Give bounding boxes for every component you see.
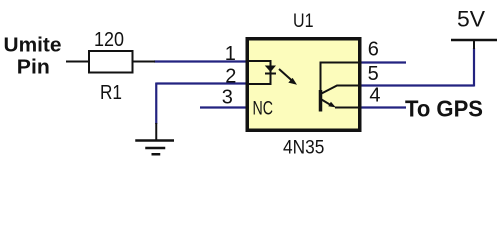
- svg-text:Pin: Pin: [17, 56, 50, 78]
- svg-text:5: 5: [368, 63, 379, 85]
- svg-text:Umite: Umite: [4, 34, 62, 56]
- svg-text:R1: R1: [100, 82, 122, 104]
- svg-text:120: 120: [94, 29, 124, 51]
- svg-text:U1: U1: [293, 11, 314, 32]
- svg-text:2: 2: [225, 65, 236, 87]
- svg-text:To GPS: To GPS: [405, 95, 483, 121]
- svg-text:6: 6: [368, 39, 379, 61]
- svg-text:3: 3: [222, 86, 233, 108]
- svg-text:NC: NC: [253, 98, 274, 119]
- svg-text:5V: 5V: [457, 6, 485, 31]
- svg-text:4: 4: [369, 84, 380, 106]
- svg-text:1: 1: [225, 43, 236, 65]
- svg-text:4N35: 4N35: [283, 138, 324, 159]
